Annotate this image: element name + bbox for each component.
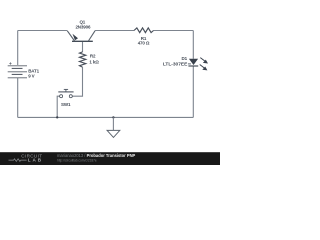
label BAT1 <box>28 69 39 74</box>
footer logo wire glyph <box>9 159 27 162</box>
switch left contact circle <box>60 95 63 98</box>
collector diagonal <box>88 31 95 41</box>
wire: top horizontal from corner to transistor emitter lead <box>18 30 68 32</box>
wire: stub down to ground <box>112 117 114 130</box>
LED D1 <box>188 58 208 71</box>
wire: bottom horizontal <box>18 116 194 118</box>
value 2N3906 <box>75 24 91 29</box>
svg-text:marianao2013 / Probador Transi: marianao2013 / Probador Transistor PNP <box>57 153 136 158</box>
LED triangle (anode) <box>189 59 198 65</box>
LED light arrow 1 <box>200 58 205 62</box>
label D1 <box>182 56 188 61</box>
wire: collector lead to R1 <box>95 30 134 32</box>
footer bar <box>0 152 220 165</box>
svg-text:1 kΩ: 1 kΩ <box>89 60 99 65</box>
battery plus sign <box>9 62 12 65</box>
junction: node at switch / bottom rail <box>56 116 58 118</box>
switch actuator cap <box>64 88 68 90</box>
value 1 kohm <box>89 60 99 65</box>
emitter diagonal <box>67 31 74 41</box>
svg-text:R2: R2 <box>90 54 96 59</box>
svg-text:LAB: LAB <box>28 158 43 163</box>
svg-text:LTL-307EE: LTL-307EE <box>163 61 188 67</box>
wire: R2 down then left to switch right terminal <box>72 67 82 96</box>
battery BAT1 <box>8 66 27 78</box>
value 470 ohm <box>138 41 150 46</box>
LED cathode bar <box>188 65 198 67</box>
wire: R1 to top-right corner <box>154 30 194 32</box>
svg-text:470 Ω: 470 Ω <box>138 41 150 46</box>
switch bar <box>58 91 73 93</box>
wire: battery bottom to bottom-left corner <box>17 78 19 117</box>
switch right contact circle <box>69 95 72 98</box>
value LTL-307EE <box>163 61 188 67</box>
switch SW1 (pushbutton) <box>58 89 73 97</box>
wire: right vertical down to LED anode <box>192 31 194 59</box>
svg-text:D1: D1 <box>182 56 188 61</box>
value 9 V <box>28 74 34 79</box>
wire: LED cathode down to bottom-right corner <box>192 66 194 117</box>
svg-text:9 V: 9 V <box>28 74 34 79</box>
junction: node at ground / bottom rail <box>112 116 114 118</box>
svg-text:http://circuitlab.com/c/2187e: http://circuitlab.com/c/2187e <box>57 159 97 163</box>
svg-text:2N3906: 2N3906 <box>75 24 91 29</box>
label R2 <box>90 54 96 59</box>
label Q1 <box>79 20 85 25</box>
wire: left vertical (battery top to top-left corner) <box>17 31 19 66</box>
emitter arrow (PNP, points to base) <box>73 34 79 41</box>
ground symbol <box>107 130 120 137</box>
wire: switch left terminal down to bottom rail <box>57 96 59 117</box>
switch actuator stem <box>65 90 67 92</box>
label tick dash <box>188 63 191 65</box>
resistor R1 470 ohm (horizontal zigzag) <box>134 28 154 33</box>
resistor R2 1 kohm (vertical zigzag) <box>80 52 86 67</box>
LED light arrow 2 <box>200 65 205 69</box>
base bar <box>72 40 93 42</box>
svg-text:BAT1: BAT1 <box>28 69 39 74</box>
label SW1 <box>61 102 71 107</box>
wire: transistor base down to R2 <box>82 41 84 52</box>
svg-text:SW1: SW1 <box>61 102 71 107</box>
transistor Q1 (PNP 2N3906) <box>67 31 95 42</box>
label R1 <box>141 36 147 41</box>
